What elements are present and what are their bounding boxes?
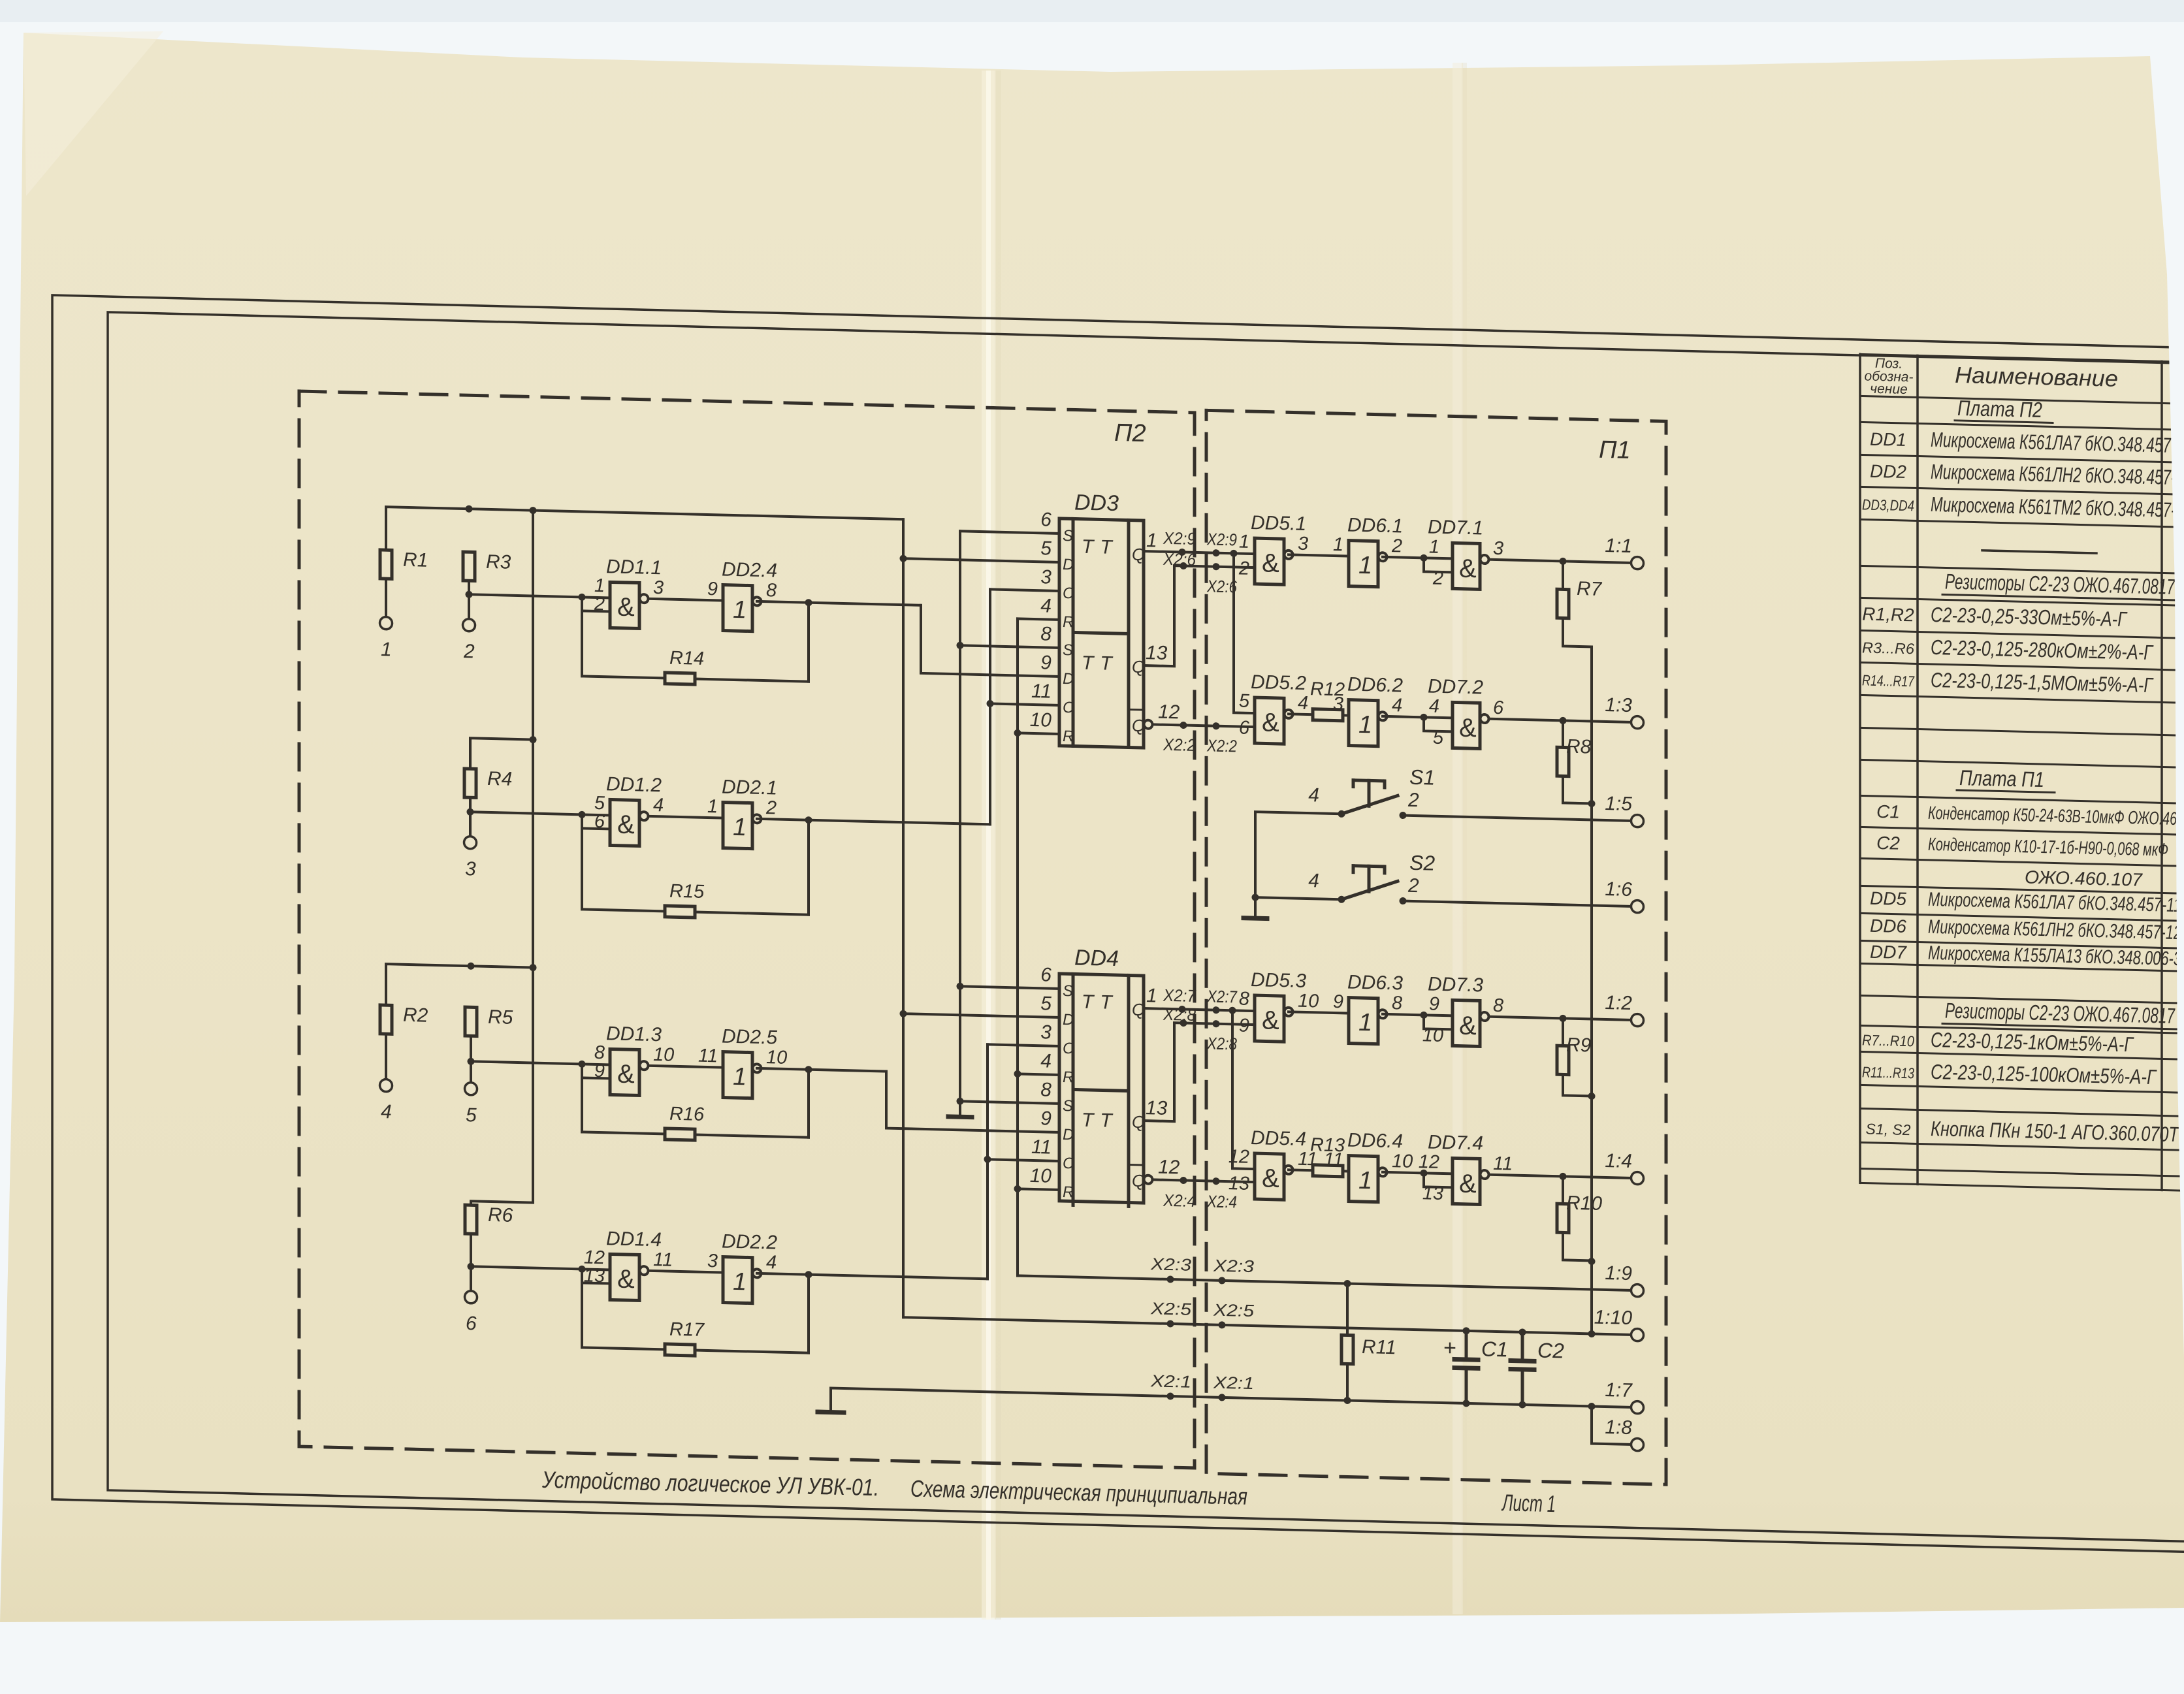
svg-text:S1: S1 [1409,765,1435,790]
node X2:8 labels [1163,1004,1237,1054]
resistor R13 [1310,1134,1345,1177]
table row R3...R6 [1862,633,2154,664]
resistor R14 [665,647,704,684]
capacitor C1 (polarized) [1443,1330,1508,1404]
logic gate DD7.2 (NAND &) [1428,675,1504,750]
svg-text:R3...R6: R3...R6 [1862,639,1914,657]
svg-text:R4: R4 [487,768,512,790]
svg-text:S1, S2: S1, S2 [1865,1121,1910,1139]
wire feedback loop of group4 [582,1269,809,1352]
svg-text:ОЖО.460.107: ОЖО.460.107 [2025,867,2143,889]
svg-text:R1,R2: R1,R2 [1862,603,1914,625]
svg-text:8: 8 [1239,989,1249,1010]
svg-text:DD2: DD2 [1870,461,1906,482]
table row C2 [1876,833,2168,860]
svg-text:1: 1 [733,596,747,624]
svg-text:&: & [617,1060,635,1089]
svg-text:R: R [1063,1068,1074,1086]
wire DD1.4 pin13 stub and feedback drop [582,1269,610,1348]
svg-text:10: 10 [1298,991,1319,1012]
svg-text:1:5: 1:5 [1605,793,1632,815]
wire DD4 pin11 (C) stub [988,1159,1059,1161]
inverter DD6.4 (1) [1324,1129,1413,1203]
wire rail of group3 (R2/R5 tops) [386,961,537,1009]
svg-text:4: 4 [1040,595,1052,616]
svg-text:6: 6 [1239,718,1250,739]
wire DD7.3 out to terminal 1:2 [1489,1013,1632,1023]
pin leads and pin numbers of DD3 [1030,509,1180,735]
terminal 1:4 [1605,1150,1643,1185]
svg-text:4: 4 [1308,870,1319,891]
wire R6 lead / input node of group4 [468,1234,475,1292]
svg-text:2: 2 [594,594,605,615]
wire DD6.3 out to DD7.3 in [1383,1014,1453,1016]
wire DD4 pin10 (R) stub [1018,1189,1059,1190]
table row S1,S2 [1865,1115,2179,1147]
wire X2:9 net (DD3 Q to DD5.1 pin1) [1144,548,1255,558]
svg-text:10: 10 [1392,1151,1413,1172]
resistor R10 [1557,1192,1602,1234]
wire DD3 pin8 (S) stub [960,645,1059,648]
wire R2 lead to terminal 4 [385,1034,387,1080]
table header [1865,356,2118,402]
flip-flop block DD4 (K561TM2, TT) [1059,945,1145,1207]
wire R7 bottom jog to supply rail [1563,618,1592,647]
svg-text:DD7.4: DD7.4 [1428,1131,1483,1154]
wire DD4 pin8 (S) stub [960,1101,1059,1104]
svg-text:DD2.2: DD2.2 [722,1231,777,1254]
wire group2 input to DD1.2 pin5 [470,808,610,819]
svg-text:1:3: 1:3 [1605,694,1632,716]
wire X2:4 net (DD4 Q12 inverted out to DD5.4 pin13) [1144,1175,1255,1187]
capacitor C2 [1511,1332,1564,1406]
wire DD5.2 out to R12 [1289,712,1313,716]
svg-text:C1: C1 [1876,801,1900,822]
board P1 label [1599,436,1631,464]
svg-text:2: 2 [1407,790,1419,811]
svg-text:11: 11 [1324,1149,1343,1171]
svg-text:X2:5: X2:5 [1213,1300,1255,1321]
inner border frame [108,312,2184,1541]
wire R9 bottom jog to supply rail [1563,1074,1592,1096]
wire R12 to DD6.2 in [1343,714,1349,716]
svg-text:1: 1 [1146,530,1157,551]
svg-text:3: 3 [1333,694,1343,714]
wire C-line DD3 (clock from group2) [987,589,994,824]
svg-text:3: 3 [1040,1021,1052,1043]
table row DD5 [1870,887,2181,916]
wire group1 output to DD3 pin9 (D) [921,605,1059,677]
logic gate DD5.1 (NAND &) [1238,512,1308,586]
svg-text:DD6.2: DD6.2 [1347,674,1403,697]
svg-text:R: R [1063,727,1074,745]
wire S-line (S inputs common, grounded) [957,531,964,1117]
svg-text:DD5.2: DD5.2 [1251,671,1306,694]
wire D-line (rail1 down to D inputs and X2:5 bus) [900,519,907,1317]
svg-text:1: 1 [1358,552,1372,580]
svg-text:8: 8 [1040,623,1052,645]
inverter DD2.4 (1) [707,558,777,632]
svg-text:R1: R1 [403,549,428,571]
wire R7 lead from output node [1562,561,1564,589]
wire branch X2:7 to DD5.4 pin12 [1232,1010,1255,1169]
terminal 1:1 [1605,535,1643,569]
svg-text:DD4: DD4 [1074,945,1119,971]
svg-text:X2:4: X2:4 [1206,1191,1237,1211]
svg-text:R15: R15 [669,881,705,903]
svg-text:X2:7: X2:7 [1206,986,1238,1006]
svg-text:4: 4 [1040,1050,1052,1072]
wire DD6.4 out to DD7.4 in [1383,1172,1453,1174]
svg-text:C: C [1063,699,1074,716]
wire R3 lead / input node of group1 [466,581,473,620]
svg-text:R8: R8 [1566,736,1592,758]
svg-text:1: 1 [381,639,392,660]
svg-text:1: 1 [1358,1167,1372,1195]
svg-text:5: 5 [1040,537,1052,559]
wire DD6.1 out to DD7.1 in [1383,557,1453,559]
svg-text:&: & [617,810,635,840]
svg-text:9: 9 [1333,991,1343,1012]
wire X2:6 net (DD3 Q13 to DD5.1 pin2) [1144,562,1255,669]
svg-text:DD6.3: DD6.3 [1347,972,1403,995]
svg-text:12: 12 [1419,1151,1439,1173]
svg-text:5: 5 [466,1104,477,1126]
svg-text:DD7.1: DD7.1 [1428,516,1483,539]
component table grid [1860,354,2184,1191]
terminal 5 [465,1083,477,1127]
wire rail of group2 (R4 top) [470,735,537,771]
logic gate DD5.4 (NAND &) [1228,1127,1317,1200]
table row R11...R13 [1862,1058,2157,1089]
wire R13 to DD6.4 in [1343,1170,1349,1172]
svg-text:4: 4 [1429,696,1439,717]
svg-text:DD6.4: DD6.4 [1347,1130,1403,1153]
wire DD4 pin3 (C) stub [988,1044,1059,1046]
wire group3 output to DD4 pin9 (D) [886,1072,1059,1132]
wire R5 lead / input node of group3 [468,1036,475,1083]
svg-text:1:4: 1:4 [1605,1150,1632,1172]
svg-text:DD7.3: DD7.3 [1428,973,1483,996]
wire DD2.1 out / group2 output [757,815,990,828]
table row R7...R10 [1862,1026,2134,1056]
svg-text:&: & [617,593,635,622]
svg-text:&: & [1262,1006,1279,1035]
svg-text:4: 4 [1308,784,1319,806]
svg-text:1:2: 1:2 [1605,992,1632,1014]
input tie jog of DD7.4 [1421,1170,1453,1188]
board P2 label [1114,419,1146,447]
svg-text:R5: R5 [488,1006,513,1029]
wire R11 bottom lead to X2:1 bus [1346,1364,1349,1401]
wire group3 input to DD1.3 pin8 [471,1058,610,1068]
svg-text:S: S [1063,982,1073,1000]
svg-text:2: 2 [463,641,475,662]
wire R4 lead / input node of group2 [467,797,474,837]
svg-text:6: 6 [1493,697,1504,718]
svg-text:ТТ: ТТ [1082,536,1119,558]
svg-text:D: D [1063,556,1074,573]
svg-text:+: + [1443,1335,1456,1360]
wire R11 top lead from X2:3 bus [1346,1284,1349,1335]
wire feedback loop of group2 [582,814,809,914]
wire DD3 pin6 (S) stub [960,531,1059,534]
node X2:6 labels [1163,549,1237,597]
svg-text:4: 4 [381,1101,392,1123]
svg-text:R17: R17 [669,1319,705,1341]
svg-text:S: S [1063,1097,1073,1115]
svg-text:чение: чение [1870,381,1907,397]
svg-text:1:7: 1:7 [1605,1379,1633,1401]
wire pull-up supply rail (R7-R10 commons to X2:5) [1588,647,1596,1334]
logic gate DD7.4 (NAND &) [1419,1131,1513,1206]
table row R14...R17 [1862,666,2154,697]
terminal 2 [463,619,475,663]
wire DD4 pin6 (S) stub [960,986,1059,989]
wire group1 input to DD1.1 pin1 [469,591,610,601]
svg-text:&: & [1262,549,1279,578]
svg-text:DD6.1: DD6.1 [1347,515,1403,537]
ground symbol at S-line [948,1114,972,1119]
logic gate DD5.2 (NAND &) [1239,671,1308,745]
push button switch S2 [1308,848,1435,905]
node X2:9 labels [1163,528,1237,550]
svg-text:X2:3: X2:3 [1150,1254,1192,1275]
svg-text:1: 1 [733,1268,747,1296]
resistor R3 [463,551,511,582]
svg-text:R10: R10 [1566,1192,1602,1215]
wire DD3 pin11 (C) stub [990,703,1059,705]
wire branch to terminal 1:8 [1592,1406,1632,1444]
terminal 1:6 [1605,878,1643,913]
wire R9 lead from output node [1562,1018,1564,1046]
svg-text:R6: R6 [488,1204,513,1226]
svg-text:1: 1 [1333,534,1343,555]
resistor R1 [380,549,428,580]
svg-text:2: 2 [765,797,777,818]
svg-text:X2:2: X2:2 [1163,735,1196,755]
resistor R11 [1341,1335,1396,1365]
svg-text:R14: R14 [669,648,704,669]
wire DD1.4 out to DD2.2 in [649,1271,723,1273]
resistor R12 [1310,679,1345,721]
svg-text:X2:2: X2:2 [1206,735,1237,756]
push button switch S1 [1308,763,1435,820]
svg-text:&: & [617,1265,635,1294]
svg-text:1: 1 [733,1063,747,1091]
svg-text:10: 10 [1030,1165,1052,1187]
ground symbol at S1/S2 common [1244,916,1267,921]
svg-text:1: 1 [1358,711,1372,739]
wire X2:8 net (DD4 Q13 to DD5.3 pin9) [1144,1019,1255,1124]
terminal 1:9 [1605,1262,1643,1297]
table row DD7 [1870,941,2181,970]
node X2:3 labels [1150,1254,1255,1276]
svg-text:3: 3 [1298,534,1308,554]
svg-text:S: S [1063,641,1073,659]
svg-text:9: 9 [1040,652,1052,673]
svg-text:DD7: DD7 [1870,942,1907,963]
svg-text:C2: C2 [1537,1339,1564,1363]
logic gate DD5.3 (NAND &) [1239,969,1319,1043]
wire X2:5 bus (supply line to terminal 1:10) [903,1314,1632,1339]
logic gate DD1.1 (NAND &) [594,556,664,630]
inverter DD6.2 (1) [1333,673,1403,747]
wire feedback loop of group1 [582,597,809,681]
wire DD1.2 out to DD2.1 in [649,816,723,818]
svg-text:12: 12 [1228,1146,1249,1168]
svg-text:&: & [1459,1170,1477,1199]
svg-text:ТТ: ТТ [1082,991,1119,1014]
svg-text:DD1.4: DD1.4 [606,1228,662,1251]
wire R10 bottom jog to supply rail [1563,1232,1592,1260]
svg-text:8: 8 [766,580,777,601]
wire X2:3 bus (reset line to terminal 1:9) [1018,1272,1632,1294]
logic gate DD1.2 (NAND &) [594,773,664,847]
wire DD7.1 out to terminal 1:1 [1489,556,1632,566]
svg-text:D: D [1063,1011,1074,1029]
svg-text:&: & [1459,714,1477,743]
resistor R16 [665,1103,705,1140]
wire R10 lead from output node [1562,1176,1564,1204]
board boundary box P2 (dashed) [299,391,1195,1468]
svg-text:9: 9 [594,1061,605,1081]
terminal 1:3 [1605,694,1643,729]
svg-text:Наименование: Наименование [1955,362,2118,392]
wire group4 input to DD1.4 pin12 [471,1263,610,1273]
svg-text:X2:8: X2:8 [1163,1004,1196,1025]
logic gate DD7.1 (NAND &) [1428,516,1503,590]
svg-text:8: 8 [1040,1079,1052,1100]
svg-text:11: 11 [653,1249,673,1271]
board boundary box P1 (dashed) [1206,410,1666,1484]
svg-text:2: 2 [1407,875,1419,897]
terminal 3 [464,837,477,880]
outer border frame [52,295,2184,1552]
wire DD1.3 pin9 stub and feedback drop [582,1064,610,1132]
resistor R15 [665,880,705,918]
svg-text:ТТ: ТТ [1082,652,1119,675]
inverter DD6.3 (1) [1333,971,1403,1045]
svg-text:6: 6 [594,811,605,832]
wire DD3 pin4 (R) stub [1018,618,1059,620]
svg-text:10: 10 [653,1044,674,1066]
svg-text:&: & [1459,554,1477,584]
terminal 1 [380,616,393,660]
input tie jog of DD7.2 [1421,714,1453,732]
svg-text:X2:1: X2:1 [1213,1373,1254,1394]
svg-text:R11...R13: R11...R13 [1862,1063,1914,1081]
input tie jog of DD7.3 [1421,1012,1453,1030]
wire DD2.2 out / group4 output [757,1270,988,1282]
wire DD3 pin3 (C) stub [990,589,1059,591]
svg-text:13: 13 [1146,1097,1168,1119]
terminal 1:2 [1605,992,1643,1027]
wire R1 lead to terminal 1 [385,579,387,618]
svg-text:12: 12 [1158,701,1180,724]
svg-text:R2: R2 [403,1004,428,1027]
svg-text:C: C [1063,1040,1074,1057]
svg-text:13: 13 [1146,642,1168,664]
svg-text:DD1.2: DD1.2 [606,773,662,796]
wire branch X2:9 to DD5.2 pin5 [1234,553,1255,713]
wire DD5.1 out to DD6.1 in [1289,554,1349,556]
svg-text:10: 10 [1030,709,1052,731]
resistor R6 [465,1204,513,1235]
terminal 1:10 [1594,1307,1644,1341]
svg-text:DD7.2: DD7.2 [1428,675,1483,698]
svg-text:R11: R11 [1362,1336,1396,1358]
table row DD6 [1870,915,2181,944]
svg-text:X2:1: X2:1 [1150,1371,1191,1392]
svg-text:С2-23-0,125-1кОм±5%-А-Г: С2-23-0,125-1кОм±5%-А-Г [1931,1028,2134,1056]
svg-text:R: R [1063,1183,1074,1201]
wire vertical rail joining group rails to R6 [471,509,533,1206]
paper creases [982,71,996,1620]
terminal 6 [465,1291,477,1335]
svg-text:4: 4 [766,1252,777,1273]
terminal 1:8 [1605,1416,1643,1451]
svg-text:DD1: DD1 [1870,429,1906,450]
wire DD4 pin4 (R) stub [1018,1074,1059,1075]
svg-text:DD2.5: DD2.5 [722,1026,777,1049]
svg-text:1: 1 [707,796,718,817]
svg-text:2: 2 [1391,535,1402,556]
svg-text:9: 9 [1239,1015,1249,1036]
svg-text:11: 11 [1493,1153,1513,1175]
svg-text:11: 11 [698,1046,718,1067]
svg-text:1:6: 1:6 [1605,878,1632,901]
svg-text:DD5: DD5 [1870,888,1906,909]
svg-text:4: 4 [1298,693,1308,714]
svg-text:X2:4: X2:4 [1163,1191,1196,1211]
svg-text:R9: R9 [1566,1034,1592,1057]
svg-text:R14...R17: R14...R17 [1862,671,1915,690]
svg-text:C2: C2 [1876,833,1900,854]
wire DD2.5 out / group3 output [757,1064,886,1075]
wire C-line DD4 (clock from group4) [984,1044,991,1279]
svg-text:8: 8 [1493,995,1503,1016]
table mid separator [1982,551,2096,553]
wire R8 lead from output node [1562,720,1564,747]
wire DD6.2 out to DD7.2 in [1383,716,1453,718]
title text [541,1466,1556,1517]
wire DD2.4 out / group1 output [757,598,921,609]
wire R-line (reset common to X2:3) [1014,618,1021,1275]
svg-text:DD3: DD3 [1074,490,1119,516]
node X2:1 labels [1150,1371,1254,1393]
table section Плата П2 [1955,396,2053,423]
svg-text:3: 3 [653,577,664,598]
svg-text:1:10: 1:10 [1594,1307,1633,1329]
svg-text:3: 3 [465,858,476,880]
svg-text:S: S [1063,527,1073,545]
svg-text:4: 4 [653,795,664,816]
svg-text:1: 1 [733,814,747,842]
svg-text:X2:7: X2:7 [1163,985,1196,1006]
svg-text:13: 13 [1228,1173,1249,1194]
svg-text:3: 3 [1040,566,1052,588]
svg-text:Q: Q [1132,545,1145,564]
svg-text:DD5.3: DD5.3 [1251,969,1306,992]
svg-text:DD3,DD4: DD3,DD4 [1862,496,1914,514]
svg-text:R: R [1063,613,1074,631]
svg-text:X2:5: X2:5 [1150,1298,1192,1319]
logic gate DD1.4 (NAND &) [584,1227,673,1301]
wire S1 to terminal 1:5 [1403,816,1632,821]
svg-text:X2:6: X2:6 [1163,549,1196,569]
svg-text:12: 12 [1158,1157,1180,1179]
